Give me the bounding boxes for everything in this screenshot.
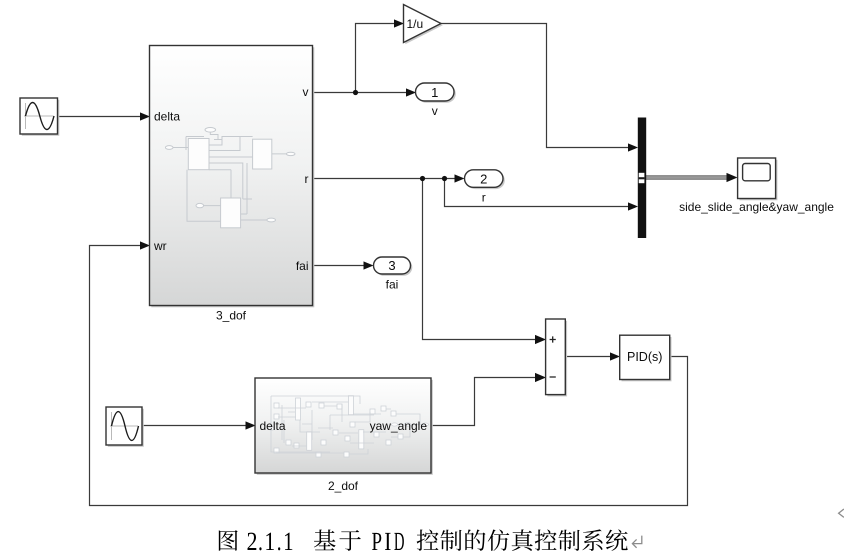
svg-text:2: 2 [480,171,487,186]
svg-text:side_slide_angle&yaw_angle: side_slide_angle&yaw_angle [679,200,834,214]
svg-text:2_dof: 2_dof [328,479,359,493]
svg-text:1: 1 [431,85,438,100]
svg-text:v: v [432,104,438,118]
svg-text:PID(s): PID(s) [627,350,662,364]
svg-text:r: r [482,191,486,205]
svg-text:v: v [303,85,309,99]
svg-text:3: 3 [388,258,395,273]
svg-text:r: r [305,172,309,186]
svg-text:fai: fai [296,259,309,273]
svg-text:delta: delta [260,419,286,433]
svg-text:1/u: 1/u [407,17,424,31]
svg-text:fai: fai [386,278,399,292]
svg-text:wr: wr [153,239,167,253]
svg-text:delta: delta [154,109,180,123]
svg-text:yaw_angle: yaw_angle [370,419,428,433]
svg-text:3_dof: 3_dof [216,309,247,323]
